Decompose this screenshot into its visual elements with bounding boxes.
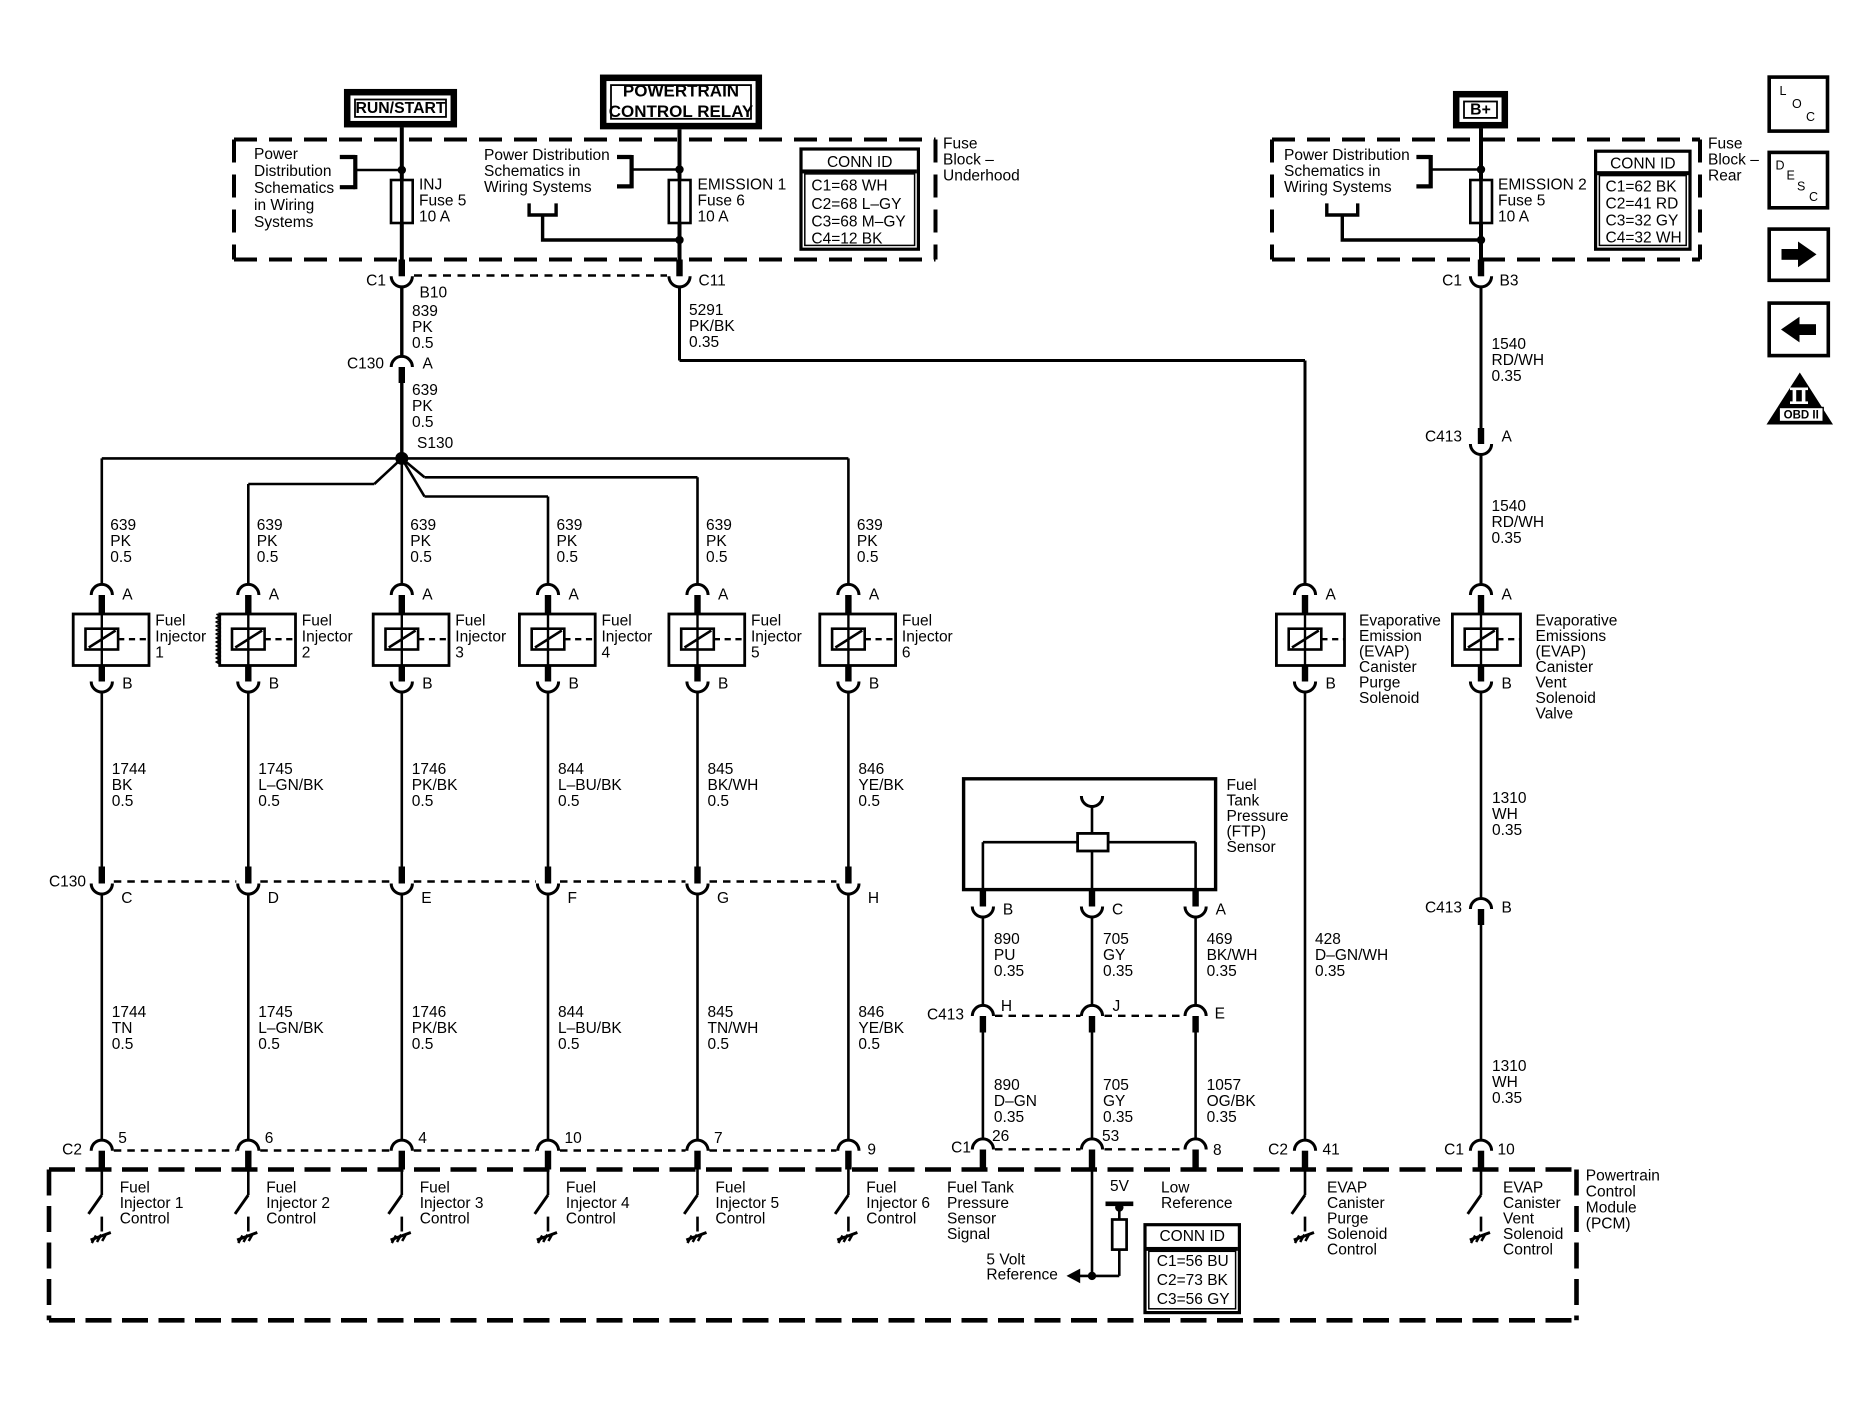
wire branch to injector 4 — [402, 458, 425, 496]
svg-text:0.5: 0.5 — [558, 1036, 580, 1053]
svg-text:Injector: Injector — [751, 629, 802, 646]
svg-text:GY: GY — [1103, 947, 1125, 964]
svg-text:Powertrain: Powertrain — [1586, 1168, 1660, 1185]
label Powertrain Control Module (PCM) — [1586, 1168, 1660, 1233]
icon LOC — [1769, 77, 1827, 131]
fuel injector 1 driver switch (PCM) — [101, 1170, 104, 1196]
label EMISSION 1 Fuse 6 10A — [698, 177, 787, 226]
svg-text:Reference: Reference — [986, 1267, 1058, 1284]
svg-text:Injector 6: Injector 6 — [866, 1195, 930, 1212]
svg-text:5: 5 — [751, 645, 760, 662]
fuel injector 5 driver switch (PCM) — [696, 1170, 699, 1196]
svg-text:RUN/START: RUN/START — [355, 100, 445, 117]
svg-text:B: B — [718, 676, 728, 693]
label Fuel Injector 6 Control — [866, 1180, 930, 1228]
svg-text:0.35: 0.35 — [1315, 963, 1345, 980]
label C1 rear — [1442, 273, 1462, 290]
svg-text:4: 4 — [418, 1130, 427, 1147]
connector C413 pin E — [1185, 1005, 1206, 1016]
svg-text:Canister: Canister — [1327, 1195, 1385, 1212]
svg-text:Fuel: Fuel — [602, 613, 632, 630]
svg-text:C130: C130 — [347, 356, 384, 373]
svg-text:H: H — [1001, 998, 1012, 1015]
fuel injector 3 — [373, 614, 449, 666]
label Fuel Injector 5 Control — [715, 1180, 779, 1228]
svg-text:428: 428 — [1315, 931, 1341, 948]
svg-text:Emissions: Emissions — [1536, 628, 1607, 645]
junction node on B+ wire (upper) — [1477, 165, 1485, 173]
label 1540 RD/WH 0.35 upper — [1492, 336, 1545, 385]
svg-text:Fuel: Fuel — [715, 1180, 745, 1197]
label 41 — [1323, 1142, 1340, 1159]
wire 705 GY 0.35 — [1091, 916, 1094, 1006]
svg-text:0.35: 0.35 — [1103, 963, 1133, 980]
connector C11 (fuse block underhood) — [676, 260, 682, 277]
bracket to RUN/START wire — [340, 155, 399, 189]
svg-text:Schematics in: Schematics in — [484, 163, 580, 180]
connector C413 pin A (right) — [1478, 428, 1484, 444]
svg-text:Fuel: Fuel — [455, 613, 485, 630]
svg-text:G: G — [717, 890, 729, 907]
svg-text:1540: 1540 — [1492, 498, 1527, 515]
EVAP canister purge solenoid — [1276, 614, 1344, 666]
svg-text:Control: Control — [266, 1211, 316, 1228]
svg-text:0.5: 0.5 — [857, 549, 879, 566]
svg-text:B: B — [422, 676, 432, 693]
svg-text:A: A — [423, 356, 434, 373]
connector C1 pin B3 (fuse block rear) — [1478, 260, 1484, 277]
svg-text:Schematics: Schematics — [254, 180, 334, 197]
ground (PCM purge driver) — [1294, 1233, 1314, 1244]
fuse EMISSION 1 Fuse 6 10A — [669, 180, 691, 223]
svg-text:839: 839 — [412, 303, 438, 320]
svg-text:0.35: 0.35 — [1207, 1109, 1237, 1126]
svg-text:C11: C11 — [699, 273, 726, 290]
svg-text:EVAP: EVAP — [1327, 1180, 1367, 1197]
svg-text:B: B — [269, 676, 279, 693]
svg-text:1057: 1057 — [1207, 1077, 1241, 1094]
fuel injector 6 — [820, 614, 896, 666]
svg-text:B: B — [1326, 676, 1336, 693]
connector C2 pin 41 — [1294, 1140, 1315, 1151]
fuel injector 4 — [519, 614, 595, 666]
label Fuel Injector 3 — [455, 613, 506, 662]
svg-text:O: O — [1792, 97, 1802, 111]
CONN ID table rear — [1596, 151, 1690, 249]
svg-text:PK: PK — [412, 319, 433, 336]
FTP sensor internal wiring — [1091, 805, 1094, 833]
svg-text:H: H — [868, 890, 879, 907]
svg-text:TN/WH: TN/WH — [708, 1020, 759, 1037]
svg-text:3: 3 — [455, 645, 464, 662]
svg-text:53: 53 — [1102, 1128, 1119, 1145]
svg-text:1540: 1540 — [1492, 336, 1527, 353]
wire 844 L–BU/BK 0.5 (to PCM) — [547, 893, 550, 1141]
connector pin A of fuel injector 6 — [838, 584, 859, 595]
svg-text:A: A — [1502, 587, 1513, 604]
svg-text:A: A — [569, 587, 580, 604]
label Fuel Injector 4 — [602, 613, 653, 662]
icon back arrow — [1769, 303, 1828, 356]
svg-text:0.5: 0.5 — [412, 1036, 434, 1053]
svg-text:A: A — [1326, 587, 1337, 604]
svg-text:D–GN: D–GN — [994, 1093, 1037, 1110]
label 639 PK 0.5 (injector 5 feed) — [706, 517, 732, 566]
svg-text:C3=56 GY: C3=56 GY — [1157, 1291, 1230, 1308]
svg-text:Rear: Rear — [1708, 168, 1742, 185]
svg-text:844: 844 — [558, 1004, 584, 1021]
svg-text:Fuel: Fuel — [302, 613, 332, 630]
svg-text:C2=73 BK: C2=73 BK — [1157, 1272, 1229, 1289]
svg-text:Evaporative: Evaporative — [1536, 613, 1618, 630]
svg-text:0.5: 0.5 — [706, 549, 728, 566]
svg-text:1744: 1744 — [112, 761, 147, 778]
svg-text:WH: WH — [1492, 1074, 1518, 1091]
svg-text:(PCM): (PCM) — [1586, 1216, 1631, 1233]
svg-text:B10: B10 — [420, 285, 448, 302]
connector pin B of EVAP vent solenoid valve — [1478, 666, 1484, 682]
svg-text:Canister: Canister — [1536, 659, 1594, 676]
svg-text:PK: PK — [557, 533, 578, 550]
svg-text:B: B — [1003, 902, 1013, 919]
ground (PCM injector 4 driver) — [537, 1233, 557, 1244]
wire branch to injector 6 — [847, 458, 850, 584]
label Fuel Tank Pressure Sensor Signal — [947, 1180, 1014, 1244]
label B (C413) — [1502, 900, 1512, 917]
svg-text:10 A: 10 A — [698, 209, 730, 226]
svg-text:F: F — [568, 890, 577, 907]
svg-text:D: D — [268, 890, 279, 907]
svg-text:Low: Low — [1161, 1180, 1190, 1197]
svg-text:B: B — [569, 676, 579, 693]
connector pin B of fuel injector 2 — [245, 666, 251, 682]
fuel injector 1 — [73, 614, 149, 666]
svg-text:C2: C2 — [62, 1142, 82, 1159]
svg-text:0.5: 0.5 — [858, 793, 880, 810]
svg-text:Underhood: Underhood — [943, 168, 1020, 185]
label C11 — [699, 273, 726, 290]
wire 1746 PK/BK 0.5 (to PCM) — [400, 893, 403, 1141]
svg-text:1745: 1745 — [258, 761, 292, 778]
svg-text:Injector 4: Injector 4 — [566, 1195, 630, 1212]
wire 845 TN/WH 0.5 (to PCM) — [696, 893, 699, 1141]
svg-text:639: 639 — [257, 517, 283, 534]
svg-text:Control: Control — [1586, 1184, 1636, 1201]
connector C130 pin A — [391, 356, 412, 367]
svg-text:639: 639 — [110, 517, 136, 534]
svg-text:PK: PK — [706, 533, 727, 550]
svg-text:PK/BK: PK/BK — [412, 1020, 458, 1037]
ground (PCM injector 2 driver) — [237, 1233, 257, 1244]
svg-text:846: 846 — [858, 761, 884, 778]
connector pin B of fuel injector 1 — [99, 666, 105, 682]
svg-text:5V: 5V — [1110, 1178, 1130, 1195]
EVAP canister vent solenoid valve — [1452, 614, 1520, 666]
wire 1540 RD/WH 0.35 (lower) — [1480, 453, 1483, 585]
svg-text:Injector: Injector — [455, 629, 506, 646]
svg-text:10 A: 10 A — [1498, 209, 1530, 226]
svg-text:A: A — [718, 587, 729, 604]
svg-text:C413: C413 — [1425, 900, 1462, 917]
label 5 Volt Reference — [986, 1252, 1058, 1284]
ground (PCM injector 1 driver) — [91, 1233, 111, 1244]
fuse EMISSION 2 Fuse 5 10A — [1470, 180, 1492, 223]
connector C130 pin C — [99, 867, 105, 884]
svg-text:Pressure: Pressure — [1227, 808, 1289, 825]
svg-text:0.35: 0.35 — [994, 1109, 1024, 1126]
fuse INJ Fuse 5 10A — [391, 180, 413, 223]
icon OBD II — [1767, 373, 1834, 425]
connector C1 pin 53 — [1081, 1139, 1102, 1150]
svg-text:Control: Control — [715, 1211, 765, 1228]
svg-text:C4=32 WH: C4=32 WH — [1606, 230, 1682, 247]
svg-text:BK/WH: BK/WH — [1207, 947, 1258, 964]
wire branch to injector 1 — [101, 458, 104, 584]
label C413 — [1425, 429, 1462, 446]
svg-text:B: B — [1502, 900, 1512, 917]
power source box B+ — [1456, 94, 1505, 125]
label 5291 PK/BK 0.35 — [689, 302, 735, 351]
fuel injector 4 driver switch (PCM) — [547, 1170, 550, 1196]
connector pin B of EVAP purge solenoid — [1302, 666, 1308, 682]
svg-text:1: 1 — [155, 645, 164, 662]
label C1 — [366, 273, 386, 290]
svg-text:Injector 5: Injector 5 — [715, 1195, 779, 1212]
svg-text:A: A — [422, 587, 433, 604]
svg-text:Control: Control — [566, 1211, 616, 1228]
connector C1 pin 8 — [1185, 1139, 1206, 1150]
junction node on relay wire (lower) — [675, 236, 683, 244]
connector C130 pin G — [694, 867, 700, 884]
label EVAP Canister Vent Solenoid Control — [1503, 1180, 1563, 1259]
power source box RUN/START — [347, 92, 454, 124]
svg-text:Injector 1: Injector 1 — [120, 1195, 184, 1212]
svg-text:C: C — [121, 890, 132, 907]
label C2 row — [62, 1142, 82, 1159]
label A — [423, 356, 434, 373]
svg-text:41: 41 — [1323, 1142, 1340, 1159]
connector C130 pin H — [845, 867, 851, 884]
bracket to EMISSION 1 wire — [617, 155, 677, 188]
junction node on RUN/START wire — [398, 166, 406, 174]
svg-text:Fuel: Fuel — [155, 613, 185, 630]
svg-text:C2=41 RD: C2=41 RD — [1606, 196, 1679, 213]
label Low Reference — [1161, 1180, 1233, 1213]
connector line C130 (dashed) — [114, 880, 237, 882]
label S130 — [417, 435, 454, 452]
connector pin B of fuel injector 3 — [399, 666, 405, 682]
svg-text:BK/WH: BK/WH — [708, 777, 759, 794]
svg-text:A: A — [1216, 902, 1227, 919]
wire branch to injector 3 — [400, 458, 403, 584]
wire 1057 OG/BK 0.35 (to PCM) — [1194, 1033, 1197, 1140]
connector C2 pin 5 — [91, 1140, 112, 1151]
wire 845 BK/WH 0.5 — [696, 691, 699, 867]
label C2 — [1268, 1142, 1288, 1159]
svg-text:CONN ID: CONN ID — [1610, 156, 1675, 173]
svg-text:RD/WH: RD/WH — [1492, 514, 1545, 531]
svg-text:C1: C1 — [1442, 273, 1462, 290]
wire branch to injector 5 — [402, 458, 425, 477]
label Fuel Injector 6 — [902, 613, 953, 662]
svg-text:890: 890 — [994, 1077, 1020, 1094]
svg-text:0.5: 0.5 — [557, 549, 579, 566]
fuel injector 2 driver switch (PCM) — [247, 1170, 250, 1196]
svg-text:C2=68 L–GY: C2=68 L–GY — [811, 196, 901, 213]
svg-text:E: E — [1787, 169, 1795, 183]
svg-text:PK: PK — [410, 533, 431, 550]
wire pin 53 to 5V reference node — [1091, 1170, 1094, 1276]
svg-text:B: B — [1502, 676, 1512, 693]
svg-text:Schematics in: Schematics in — [1284, 163, 1380, 180]
svg-text:Tank: Tank — [1227, 793, 1260, 810]
connector pin A of EVAP vent solenoid valve — [1470, 584, 1491, 595]
svg-text:0.35: 0.35 — [1207, 963, 1237, 980]
label B3 — [1500, 273, 1519, 290]
wire 639 PK 0.5 trunk — [400, 383, 403, 458]
connector C130 pin F — [545, 867, 551, 884]
wire 5 volt reference bus — [1079, 1275, 1119, 1278]
svg-text:C3=32 GY: C3=32 GY — [1606, 213, 1679, 230]
svg-text:0.35: 0.35 — [1492, 1090, 1522, 1107]
svg-text:0.5: 0.5 — [558, 793, 580, 810]
svg-text:E: E — [1215, 1006, 1225, 1023]
svg-text:CONTROL RELAY: CONTROL RELAY — [609, 102, 754, 121]
svg-text:845: 845 — [708, 1004, 734, 1021]
svg-text:PK/BK: PK/BK — [689, 318, 735, 335]
svg-text:Control: Control — [866, 1211, 916, 1228]
svg-text:0.35: 0.35 — [1103, 1109, 1133, 1126]
svg-text:Injector: Injector — [155, 629, 206, 646]
svg-text:6: 6 — [902, 645, 911, 662]
svg-text:Control: Control — [120, 1211, 170, 1228]
svg-text:0.35: 0.35 — [1492, 530, 1522, 547]
wire POWERTRAIN CONTROL RELAY feed — [678, 129, 682, 180]
connector FTP sensor pin A — [1192, 890, 1198, 907]
svg-text:Injector 2: Injector 2 — [266, 1195, 330, 1212]
connector C2 pin 7 — [687, 1140, 708, 1151]
fuse block rear dashed outline — [1272, 138, 1700, 142]
svg-text:Signal: Signal — [947, 1226, 990, 1243]
wire 1310 WH 0.35 (upper) — [1480, 691, 1483, 899]
wire 1744 BK 0.5 — [101, 691, 104, 867]
wire 846 YE/BK 0.5 — [847, 691, 850, 867]
svg-text:OG/BK: OG/BK — [1207, 1093, 1257, 1110]
svg-text:0.5: 0.5 — [258, 1036, 280, 1053]
label EMISSION 2 Fuse 5 10A — [1498, 177, 1587, 226]
wire 839 PK 0.5 — [400, 286, 403, 357]
svg-text:Systems: Systems — [254, 214, 314, 231]
FTP sensing element — [1078, 833, 1109, 851]
junction node on relay wire (upper) — [675, 165, 683, 173]
connector pin B of fuel injector 4 — [545, 666, 551, 682]
connector C2 pin 10 — [537, 1140, 558, 1151]
svg-text:0.35: 0.35 — [1492, 368, 1522, 385]
svg-text:OBD II: OBD II — [1784, 410, 1819, 422]
svg-text:C413: C413 — [927, 1007, 964, 1024]
svg-text:6: 6 — [265, 1130, 274, 1147]
svg-text:Distribution: Distribution — [254, 163, 332, 180]
svg-text:Fuse 5: Fuse 5 — [419, 193, 466, 210]
svg-text:Fuel: Fuel — [866, 1180, 896, 1197]
connector C2 pin 9 — [838, 1140, 859, 1151]
label Fuel Injector 2 — [302, 613, 353, 662]
dashed connector line C1-C11 — [414, 274, 667, 277]
svg-text:0.5: 0.5 — [258, 793, 280, 810]
svg-text:(EVAP): (EVAP) — [1536, 644, 1587, 661]
svg-text:C1: C1 — [951, 1140, 971, 1157]
label 639 PK 0.5 (injector 4 feed) — [557, 517, 583, 566]
svg-text:D–GN/WH: D–GN/WH — [1315, 947, 1388, 964]
wire 890 D–GN 0.35 (to PCM) — [982, 1033, 985, 1140]
label Fuel Injector 5 — [751, 613, 802, 662]
EVAP vent driver switch (PCM) — [1480, 1170, 1483, 1196]
svg-text:in Wiring: in Wiring — [254, 197, 314, 214]
svg-text:Block –: Block – — [1708, 152, 1759, 169]
connector C2 pin 4 — [391, 1140, 412, 1151]
label 639 PK 0.5 (injector 1 feed) — [110, 517, 136, 566]
svg-text:B3: B3 — [1500, 273, 1519, 290]
svg-text:E: E — [421, 890, 431, 907]
label Fuel Injector 4 Control — [566, 1180, 630, 1228]
svg-text:705: 705 — [1103, 931, 1129, 948]
label 639 PK 0.5 (injector 2 feed) — [257, 517, 283, 566]
powertrain control module (PCM) dashed outline — [49, 1167, 1577, 1172]
connector pin A of fuel injector 1 — [91, 584, 112, 595]
svg-text:Solenoid: Solenoid — [1359, 690, 1419, 707]
wire 890 PU 0.35 — [982, 916, 985, 1006]
ground (PCM injector 5 driver) — [686, 1233, 706, 1244]
svg-text:Power: Power — [254, 146, 298, 163]
fuel injector 5 — [669, 614, 745, 666]
svg-text:PK/BK: PK/BK — [412, 777, 458, 794]
wire 428 D-GN/WH 0.35 — [1304, 691, 1307, 1141]
EVAP purge driver switch (PCM) — [1304, 1170, 1307, 1196]
svg-text:Fuel: Fuel — [902, 613, 932, 630]
arrow 5 Volt Reference — [1067, 1269, 1081, 1284]
connector line C413 (dashed) — [995, 1015, 1081, 1017]
svg-text:0.5: 0.5 — [110, 549, 132, 566]
svg-text:C413: C413 — [1425, 429, 1462, 446]
connector C2 pin 6 — [238, 1140, 259, 1151]
connector C130 pin E — [399, 867, 405, 884]
label EVAP Canister Purge Solenoid Control — [1327, 1180, 1387, 1259]
svg-text:0.5: 0.5 — [858, 1036, 880, 1053]
wire 1746 PK/BK 0.5 — [400, 691, 403, 867]
svg-text:C2: C2 — [1268, 1142, 1288, 1159]
wire 705 GY 0.35 (to PCM) — [1091, 1033, 1094, 1140]
connector line C2 (dashed) — [114, 1149, 237, 1151]
svg-text:639: 639 — [410, 517, 436, 534]
svg-text:Fuel Tank: Fuel Tank — [947, 1180, 1014, 1197]
label Evaporative Emissions (EVAP) Canister Vent Solenoid Valve — [1536, 613, 1618, 723]
svg-text:C: C — [1112, 902, 1123, 919]
svg-text:4: 4 — [602, 645, 611, 662]
svg-text:844: 844 — [558, 761, 584, 778]
svg-text:Purge: Purge — [1359, 675, 1400, 692]
svg-text:Injector 3: Injector 3 — [420, 1195, 484, 1212]
junction node on B+ wire (lower) — [1477, 236, 1485, 244]
svg-text:Purge: Purge — [1327, 1211, 1368, 1228]
svg-text:705: 705 — [1103, 1077, 1129, 1094]
svg-text:S: S — [1797, 180, 1805, 194]
connector FTP sensor pin C — [1089, 890, 1095, 907]
svg-text:BK: BK — [112, 777, 133, 794]
svg-text:YE/BK: YE/BK — [858, 1020, 904, 1037]
svg-text:5: 5 — [118, 1130, 127, 1147]
svg-text:EMISSION 2: EMISSION 2 — [1498, 177, 1587, 194]
svg-text:Sensor: Sensor — [947, 1211, 996, 1228]
